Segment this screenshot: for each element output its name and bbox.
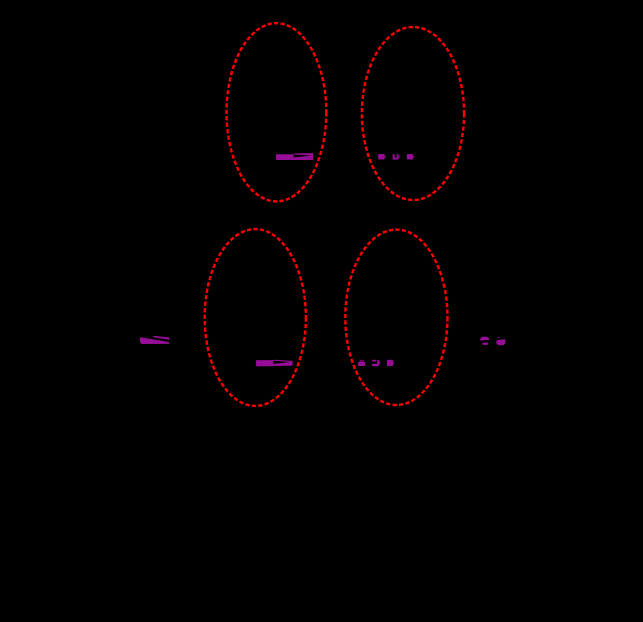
purple double dots at right — [480, 337, 505, 345]
purple arrow mark in mid-left ellipse — [256, 360, 293, 367]
dashed ellipse mid-right — [345, 230, 447, 405]
purple arrow mark in top-left ellipse — [276, 153, 313, 160]
purple triple dots in mid-right ellipse — [358, 360, 394, 366]
dashed ellipse top-left — [227, 23, 327, 201]
purple scribble at left — [140, 336, 170, 344]
purple triple dots in top-right ellipse — [378, 154, 414, 160]
dashed ellipse mid-left — [205, 229, 306, 406]
dashed ellipse top-right — [362, 27, 464, 200]
